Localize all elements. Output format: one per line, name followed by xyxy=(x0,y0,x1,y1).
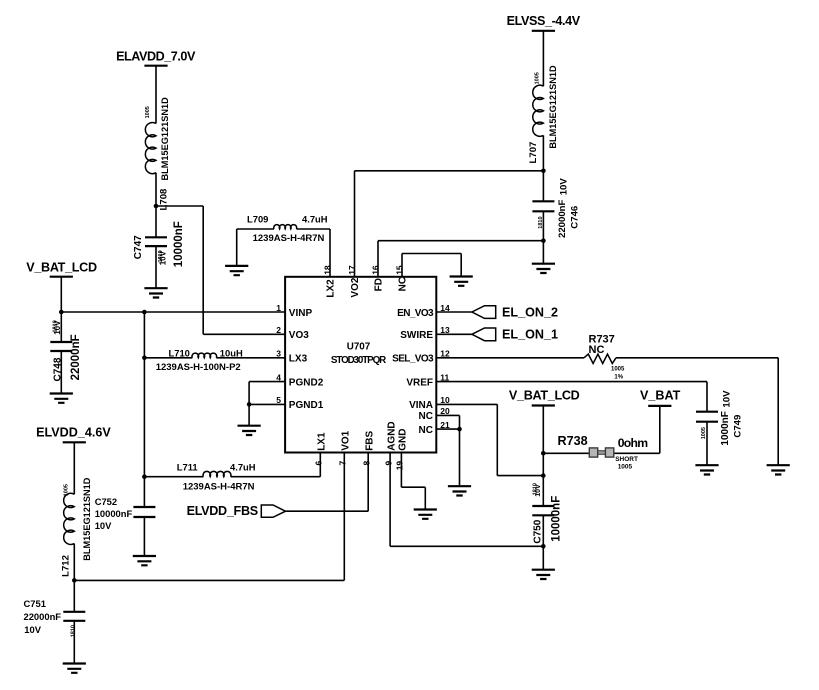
svg-text:NC: NC xyxy=(589,344,605,356)
svg-text:21: 21 xyxy=(440,420,450,430)
svg-text:10000nF: 10000nF xyxy=(551,496,563,542)
svg-text:EL_ON_1: EL_ON_1 xyxy=(502,328,558,342)
svg-text:L712: L712 xyxy=(61,555,72,577)
svg-text:SWIRE: SWIRE xyxy=(400,330,433,341)
svg-text:PGND2: PGND2 xyxy=(289,377,324,388)
svg-text:10000nF: 10000nF xyxy=(173,221,185,267)
svg-text:10V: 10V xyxy=(95,520,112,531)
svg-text:NC: NC xyxy=(419,425,433,436)
svg-text:1005: 1005 xyxy=(145,106,151,118)
svg-text:1005: 1005 xyxy=(701,427,707,439)
svg-text:C749: C749 xyxy=(733,415,744,438)
svg-text:4.7uH: 4.7uH xyxy=(302,213,328,224)
svg-text:10: 10 xyxy=(440,395,450,405)
svg-text:1810: 1810 xyxy=(158,250,164,262)
svg-text:7: 7 xyxy=(338,461,348,466)
svg-text:6: 6 xyxy=(314,461,324,466)
svg-text:16: 16 xyxy=(370,265,380,275)
svg-text:C747: C747 xyxy=(133,235,144,259)
svg-text:L711: L711 xyxy=(177,461,198,472)
svg-text:11: 11 xyxy=(440,372,449,382)
svg-text:C748: C748 xyxy=(52,357,63,381)
svg-text:4: 4 xyxy=(276,372,281,382)
svg-text:C746: C746 xyxy=(569,206,580,229)
svg-text:1005: 1005 xyxy=(534,72,540,84)
svg-text:19: 19 xyxy=(395,461,405,471)
svg-text:BLM15EG121SN1D: BLM15EG121SN1D xyxy=(548,65,558,149)
svg-text:C751: C751 xyxy=(24,598,46,609)
svg-text:1239AS-H-100N-P2: 1239AS-H-100N-P2 xyxy=(156,362,241,373)
svg-text:1810: 1810 xyxy=(533,483,539,495)
svg-text:1005: 1005 xyxy=(618,463,633,470)
svg-text:10V: 10V xyxy=(721,390,732,408)
svg-text:ELAVDD_7.0V: ELAVDD_7.0V xyxy=(116,50,196,64)
svg-text:V_BAT_LCD: V_BAT_LCD xyxy=(26,260,97,274)
svg-text:PGND1: PGND1 xyxy=(289,400,324,411)
svg-text:22000nF: 22000nF xyxy=(70,334,82,380)
svg-text:2: 2 xyxy=(276,325,281,335)
svg-text:VINA: VINA xyxy=(409,400,433,411)
svg-text:1005: 1005 xyxy=(64,484,70,496)
svg-text:1%: 1% xyxy=(614,375,623,381)
svg-text:1810: 1810 xyxy=(53,320,59,332)
svg-text:SHORT: SHORT xyxy=(615,456,638,463)
svg-text:R738: R738 xyxy=(558,434,588,448)
svg-text:22000nF: 22000nF xyxy=(24,611,62,622)
svg-text:1239AS-H-4R7N: 1239AS-H-4R7N xyxy=(253,233,325,244)
svg-text:FBS: FBS xyxy=(365,430,376,450)
svg-text:1810: 1810 xyxy=(538,216,544,228)
svg-text:L708: L708 xyxy=(158,188,169,211)
svg-text:VREF: VREF xyxy=(406,377,433,388)
svg-text:L709: L709 xyxy=(247,213,268,224)
svg-text:1005: 1005 xyxy=(611,366,625,372)
svg-text:ELVSS_-4.4V: ELVSS_-4.4V xyxy=(507,14,581,28)
svg-text:10000nF: 10000nF xyxy=(95,508,133,519)
svg-text:LX1: LX1 xyxy=(317,432,328,451)
svg-text:V_BAT_LCD: V_BAT_LCD xyxy=(509,389,580,403)
svg-text:C750: C750 xyxy=(532,519,543,543)
svg-text:FD: FD xyxy=(374,278,385,291)
svg-text:10V: 10V xyxy=(24,624,41,635)
svg-text:1810: 1810 xyxy=(71,625,77,637)
svg-text:13: 13 xyxy=(440,325,450,335)
svg-text:LX3: LX3 xyxy=(289,354,308,365)
svg-text:VO3: VO3 xyxy=(289,330,309,341)
svg-text:9: 9 xyxy=(383,461,393,466)
svg-text:1000nF: 1000nF xyxy=(720,411,731,445)
svg-text:VO1: VO1 xyxy=(341,430,352,450)
svg-text:C752: C752 xyxy=(95,496,117,507)
svg-text:L707: L707 xyxy=(528,142,539,164)
svg-text:22000nF: 22000nF xyxy=(557,199,568,238)
svg-text:3: 3 xyxy=(276,349,281,359)
svg-text:VINP: VINP xyxy=(289,308,313,319)
svg-text:20: 20 xyxy=(440,406,450,416)
svg-text:V_BAT: V_BAT xyxy=(640,389,681,403)
svg-text:AGND: AGND xyxy=(386,421,397,450)
svg-text:1239AS-H-4R7N: 1239AS-H-4R7N xyxy=(183,481,255,492)
svg-text:1: 1 xyxy=(276,303,281,313)
svg-text:BLM15EG121SN1D: BLM15EG121SN1D xyxy=(82,477,92,561)
svg-text:17: 17 xyxy=(347,265,357,275)
svg-text:EL_ON_2: EL_ON_2 xyxy=(502,305,558,319)
svg-text:8: 8 xyxy=(361,461,371,466)
svg-text:10V: 10V xyxy=(558,178,569,196)
svg-text:15: 15 xyxy=(394,265,404,275)
svg-text:VO2: VO2 xyxy=(350,277,361,297)
svg-text:10uH: 10uH xyxy=(220,348,243,359)
svg-text:0ohm: 0ohm xyxy=(618,436,649,450)
svg-text:12: 12 xyxy=(440,349,450,359)
svg-text:4.7uH: 4.7uH xyxy=(230,461,256,472)
svg-text:GND: GND xyxy=(398,429,409,451)
svg-text:ELVDD_4.6V: ELVDD_4.6V xyxy=(36,426,111,440)
svg-text:5: 5 xyxy=(276,395,281,405)
svg-text:STOD30TPQR: STOD30TPQR xyxy=(331,355,386,366)
svg-text:U707: U707 xyxy=(347,341,371,352)
svg-text:14: 14 xyxy=(440,303,450,313)
svg-text:NC: NC xyxy=(419,411,433,422)
svg-text:18: 18 xyxy=(322,265,332,275)
svg-text:LX2: LX2 xyxy=(326,279,337,298)
svg-text:BLM15EG121SN1D: BLM15EG121SN1D xyxy=(160,97,170,181)
svg-text:SEL_VO3: SEL_VO3 xyxy=(392,354,434,365)
svg-text:EN_VO3: EN_VO3 xyxy=(397,308,434,319)
svg-text:ELVDD_FBS: ELVDD_FBS xyxy=(187,504,258,518)
svg-text:L710: L710 xyxy=(169,348,190,359)
svg-text:NC: NC xyxy=(398,277,409,291)
